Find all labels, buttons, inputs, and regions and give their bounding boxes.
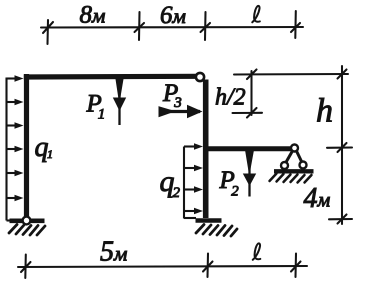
pin support at left column base xyxy=(9,217,45,235)
force P1 (vertical arrow at top chord) xyxy=(113,79,126,125)
svg-text:5м: 5м xyxy=(100,237,127,268)
svg-text:h: h xyxy=(316,93,333,130)
dimension h with 4м segment (right vertical line) xyxy=(327,66,352,224)
left column xyxy=(24,74,29,218)
distributed load q1 on left column xyxy=(7,78,17,221)
svg-text:8м: 8м xyxy=(80,2,106,29)
dimension label script l (top) xyxy=(252,6,259,22)
force P2 (vertical arrow on right beam) xyxy=(243,151,256,197)
distributed load q2 on middle column lower part xyxy=(184,147,196,219)
roller support at beam right end xyxy=(270,145,314,183)
frame top chord xyxy=(24,74,197,80)
middle column xyxy=(203,80,209,219)
top dimension line xyxy=(41,11,303,44)
force P3 (horizontal arrow at half height of upper column part) xyxy=(159,105,203,118)
label script l (bottom) xyxy=(253,243,260,259)
right beam xyxy=(205,146,291,151)
svg-text:6м: 6м xyxy=(160,2,186,29)
svg-text:h/2: h/2 xyxy=(215,85,246,111)
fixed support at middle column base xyxy=(196,221,238,237)
hinge circle at top of middle column xyxy=(196,73,204,81)
bottom dimension line xyxy=(18,254,307,279)
dimension h/2 xyxy=(233,70,349,118)
